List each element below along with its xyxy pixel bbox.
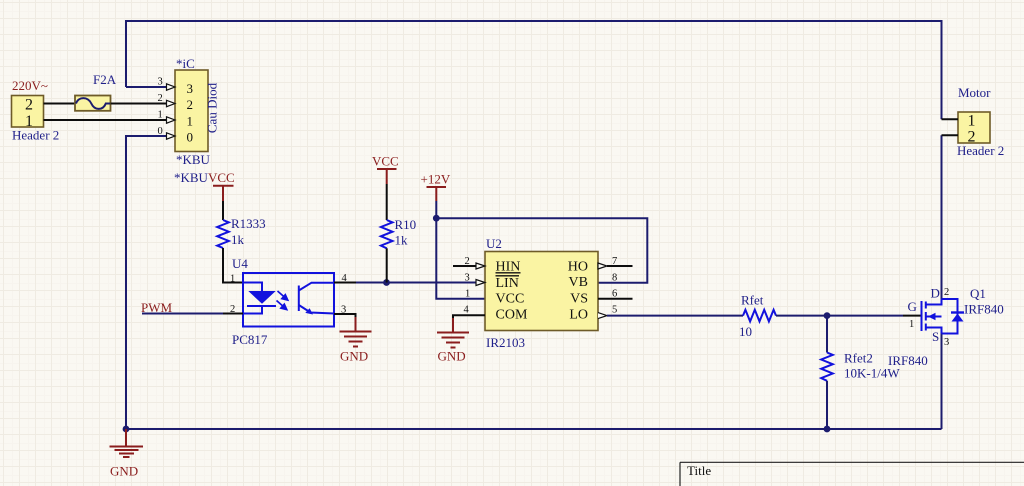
wire motor pin2: [942, 134, 959, 136]
wire motor pin1: [942, 118, 959, 120]
svg-text:S: S: [932, 329, 939, 344]
wire fuse to bridge pin2: [111, 103, 168, 105]
wire header pin2 to fuse: [44, 103, 76, 105]
svg-text:220V~: 220V~: [12, 78, 48, 93]
svg-text:0: 0: [187, 130, 194, 145]
wire Rfet to gate: [776, 315, 903, 317]
connector Header 2 (220V): [12, 96, 44, 128]
svg-text:LO: LO: [569, 307, 588, 322]
pin arrow 2: [167, 100, 176, 106]
svg-text:IR2103: IR2103: [486, 335, 525, 350]
led inside U4: [243, 283, 262, 292]
title block: [680, 461, 1024, 463]
wire bottom rail: [126, 428, 942, 430]
svg-text:HO: HO: [568, 259, 588, 274]
svg-text:LIN: LIN: [496, 276, 519, 291]
svg-text:D: D: [931, 286, 940, 301]
svg-text:3: 3: [465, 273, 470, 284]
svg-text:3: 3: [158, 77, 163, 88]
svg-text:2: 2: [944, 287, 949, 298]
svg-text:Rfet: Rfet: [741, 293, 764, 308]
svg-text:G: G: [908, 299, 917, 314]
junction Rfet2 bottom: [824, 426, 831, 433]
resistor Rfet2 10K-1/4W: [826, 316, 828, 353]
svg-text:R1333: R1333: [231, 216, 266, 231]
wire left rail down: [126, 136, 167, 429]
svg-text:VS: VS: [570, 292, 588, 307]
svg-text:1k: 1k: [395, 233, 409, 248]
wire bridge pin3: [126, 86, 167, 88]
junction U4pin4/R10: [383, 279, 390, 286]
wire PWM to U4 pin2: [142, 313, 223, 315]
wire right rail lower: [941, 135, 943, 299]
svg-text:0: 0: [158, 126, 163, 137]
svg-text:Title: Title: [687, 463, 711, 478]
resistor R10 1k: [381, 220, 393, 248]
svg-text:GND: GND: [438, 349, 466, 364]
svg-text:3: 3: [187, 81, 194, 96]
wire R1333 to U4 pin1: [223, 248, 243, 283]
wire mosfet source to bottom: [941, 334, 943, 430]
wire bootstrap +12V to VB: [436, 218, 647, 283]
pin arrow 0: [167, 133, 176, 139]
svg-text:*iC: *iC: [176, 56, 195, 71]
svg-text:Q1: Q1: [970, 286, 986, 301]
svg-text:1k: 1k: [231, 232, 245, 247]
svg-text:GND: GND: [110, 464, 138, 479]
wire U4 pin4 to LIN: [334, 282, 356, 284]
svg-text:1: 1: [968, 112, 976, 129]
svg-text:2: 2: [158, 93, 163, 104]
resistor R1333 1k: [217, 220, 229, 248]
svg-text:1: 1: [230, 274, 235, 285]
wire +12V down to U2 VCC: [436, 218, 485, 299]
wire top rail: [126, 21, 942, 119]
phototransistor inside U4: [298, 286, 300, 312]
svg-text:*KBU: *KBU: [174, 170, 209, 185]
svg-text:5: 5: [612, 305, 617, 316]
junction +12V/bootstrap: [433, 215, 440, 222]
light arrows: [277, 291, 288, 310]
svg-text:2: 2: [187, 97, 194, 112]
svg-text:U4: U4: [232, 256, 248, 271]
svg-text:*KBU: *KBU: [176, 152, 211, 167]
svg-text:1: 1: [187, 114, 194, 129]
ground GND (U4 pin3): [340, 332, 372, 347]
svg-text:VB: VB: [569, 275, 588, 290]
junction Rfet2 top: [824, 312, 831, 319]
svg-text:2: 2: [25, 97, 33, 114]
pin arrow 1: [167, 117, 176, 123]
transistor Q1 IRF840: [922, 301, 926, 331]
svg-text:VCC: VCC: [496, 292, 525, 307]
svg-text:Motor: Motor: [958, 85, 991, 100]
svg-text:Cau Diod: Cau Diod: [205, 82, 220, 133]
svg-text:4: 4: [464, 305, 470, 316]
svg-text:3: 3: [944, 337, 949, 348]
svg-text:+12V: +12V: [421, 172, 451, 187]
wire U4 pin3 to GND: [334, 314, 356, 318]
svg-text:10K-1/4W: 10K-1/4W: [844, 366, 900, 381]
svg-text:Header 2: Header 2: [12, 128, 59, 143]
svg-text:U2: U2: [486, 236, 502, 251]
svg-text:VCC: VCC: [208, 170, 235, 185]
svg-text:R10: R10: [395, 217, 417, 232]
ground GND (bottom left): [123, 426, 130, 433]
svg-text:VCC: VCC: [372, 154, 399, 169]
wire header pin1 to bridge: [44, 119, 168, 121]
svg-text:1: 1: [909, 319, 914, 330]
svg-text:10: 10: [739, 324, 752, 339]
ground GND (U2 COM): [437, 333, 469, 348]
svg-text:COM: COM: [496, 307, 528, 322]
svg-text:IRF840: IRF840: [964, 302, 1004, 317]
svg-text:GND: GND: [340, 349, 368, 364]
power bar VCC: [213, 185, 234, 187]
svg-text:1: 1: [465, 289, 470, 300]
svg-text:F2A: F2A: [93, 72, 117, 87]
svg-text:Rfet2: Rfet2: [844, 351, 873, 366]
svg-text:Header 2: Header 2: [957, 143, 1004, 158]
svg-text:1: 1: [158, 110, 163, 121]
svg-text:8: 8: [612, 273, 617, 284]
pin arrow 3: [167, 84, 176, 90]
svg-text:PC817: PC817: [232, 332, 268, 347]
